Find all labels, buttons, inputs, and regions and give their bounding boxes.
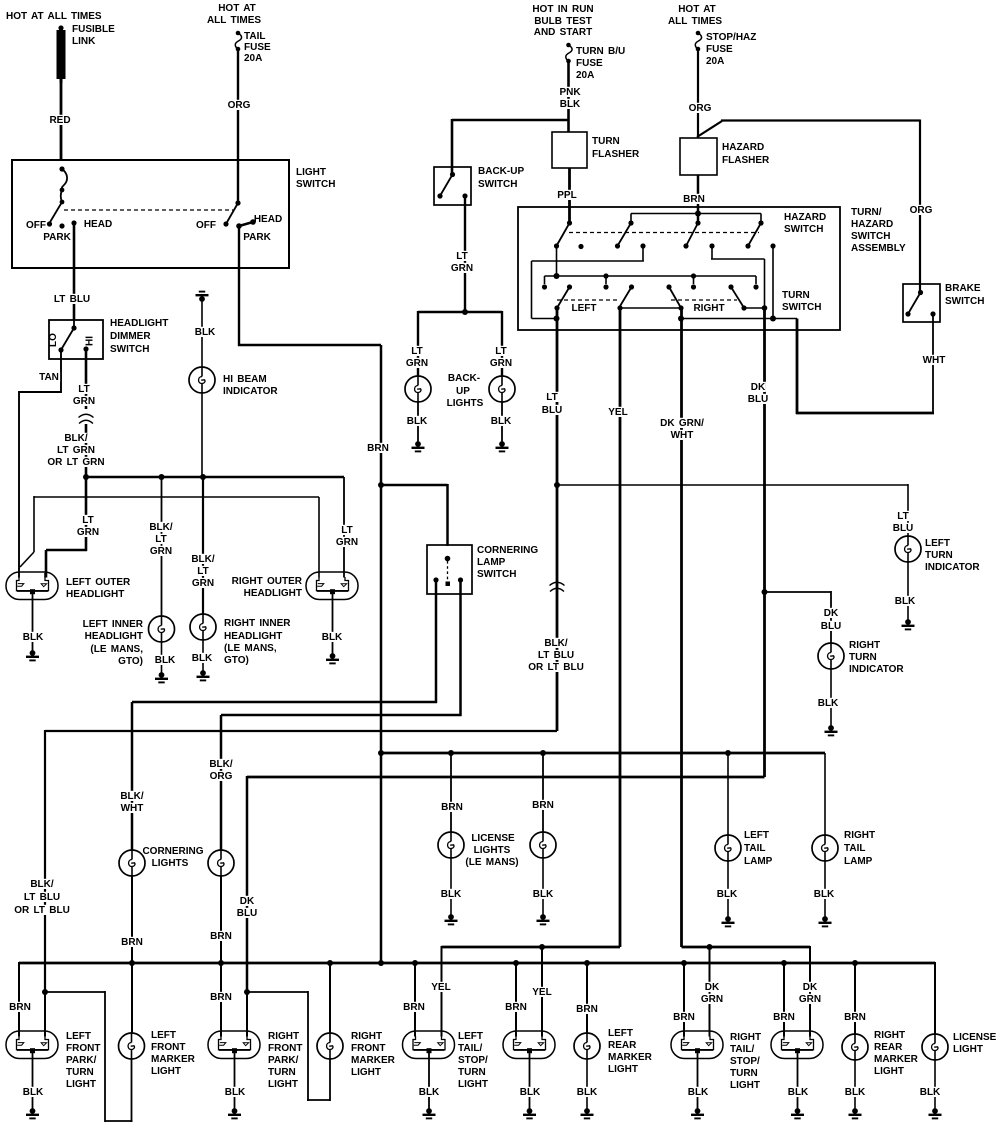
wire BRN to left rear marker [586, 963, 588, 1033]
svg-text:HOT AT: HOT AT [218, 3, 256, 14]
svg-text:BLU: BLU [542, 405, 563, 416]
left tail/stop/turn light connector 1 [403, 1031, 455, 1059]
svg-text:BRN: BRN [844, 1012, 866, 1023]
svg-text:BULB TEST: BULB TEST [534, 16, 592, 27]
svg-text:DIMMER: DIMMER [110, 331, 151, 342]
wire TAN low beam [60, 350, 62, 393]
svg-text:BLK: BLK [533, 889, 554, 900]
svg-text:(LE MANS,: (LE MANS, [90, 644, 143, 655]
wire low beam drop to right outer headlight [318, 497, 320, 578]
svg-text:BLK: BLK [23, 632, 44, 643]
svg-text:PARK: PARK [43, 232, 71, 243]
svg-text:PARK/: PARK/ [66, 1055, 97, 1066]
turn wiper A [567, 284, 572, 289]
svg-text:LT: LT [341, 525, 352, 536]
wire DK BLU front turn feed [247, 776, 765, 779]
svg-text:ORG: ORG [228, 100, 251, 111]
turn contacts [554, 305, 559, 310]
wire BLK + ground right tail connector 1 [697, 1051, 699, 1110]
turn wiper C [666, 284, 671, 289]
svg-text:RIGHT: RIGHT [730, 1032, 761, 1043]
wire TAN into left outer headlight [18, 568, 20, 578]
back-up switch wiper [450, 172, 455, 177]
svg-text:HEAD: HEAD [84, 219, 112, 230]
brake switch wiper [918, 290, 923, 295]
wire LT GRN back-up feed [464, 196, 466, 312]
wire to right tail lamp [824, 753, 826, 835]
svg-text:SWITCH: SWITCH [296, 179, 335, 190]
svg-text:BLK: BLK [520, 1087, 541, 1098]
turn bus terminal 4 [755, 276, 757, 284]
svg-text:BLU: BLU [821, 621, 842, 632]
mechanical link dashed [64, 209, 233, 211]
hazard dashed link [569, 232, 759, 234]
svg-text:LIGHT: LIGHT [66, 1079, 96, 1090]
svg-text:GRN: GRN [799, 994, 821, 1005]
svg-text:BLK: BLK [195, 327, 216, 338]
cornering switch dashed actuator [447, 561, 449, 580]
svg-text:YEL: YEL [532, 987, 551, 998]
wires to back-up lights [418, 311, 465, 313]
wire to left turn indicator [557, 484, 908, 486]
wire BLK + ground left turn indicator [907, 562, 909, 621]
svg-text:20A: 20A [244, 53, 262, 64]
wire BLK/ORG cornering right output [459, 580, 462, 716]
svg-text:MARKER: MARKER [151, 1054, 196, 1065]
svg-text:GRN: GRN [406, 358, 428, 369]
svg-text:LAMP: LAMP [844, 856, 873, 867]
wire DK GRN rear feed [682, 946, 811, 949]
wire BRN drop to right front park light [220, 963, 222, 1037]
svg-text:OR LT BLU: OR LT BLU [528, 662, 584, 673]
wire hi beam indicator to bus [201, 393, 203, 477]
node YEL tap [539, 944, 545, 950]
svg-text:BRN: BRN [576, 1004, 598, 1015]
svg-text:HOT AT ALL TIMES: HOT AT ALL TIMES [6, 11, 102, 22]
svg-text:FUSE: FUSE [706, 44, 733, 55]
turn switch bus wire [545, 275, 757, 277]
svg-text:BLK: BLK [407, 416, 428, 427]
wire LT GRN drop to left outer headlight [85, 477, 88, 551]
svg-text:UP: UP [456, 386, 470, 397]
wire to right front marker light [329, 963, 331, 1033]
svg-text:OR LT GRN: OR LT GRN [47, 457, 104, 468]
svg-text:BLK/: BLK/ [30, 879, 54, 890]
wire YEL rear feed [442, 946, 621, 949]
svg-text:BLK: BLK [491, 416, 512, 427]
svg-text:REAR: REAR [874, 1042, 903, 1053]
svg-text:ORG: ORG [210, 771, 233, 782]
wire BLK/WHT to left cornering light [131, 702, 134, 850]
svg-text:GRN: GRN [490, 358, 512, 369]
svg-text:TAIL/: TAIL/ [730, 1044, 754, 1055]
svg-text:LIGHT: LIGHT [874, 1066, 904, 1077]
svg-text:SWITCH: SWITCH [110, 344, 149, 355]
svg-text:INDICATOR: INDICATOR [223, 386, 278, 397]
wire BRN drop to right tail connector 2 [783, 963, 785, 1037]
hazard wiper 3 (BRN) [695, 220, 700, 225]
svg-text:LIGHTS: LIGHTS [474, 845, 511, 856]
wire to left front marker light [131, 963, 133, 1033]
svg-text:HEADLIGHT: HEADLIGHT [244, 588, 302, 599]
svg-text:GRN: GRN [77, 527, 99, 538]
svg-text:TAN: TAN [39, 372, 59, 383]
svg-text:LEFT: LEFT [925, 538, 950, 549]
wire LT BLU turn output [556, 308, 559, 731]
ground right outer headlight [326, 653, 339, 663]
svg-text:LICENSE: LICENSE [471, 833, 515, 844]
svg-text:LEFT: LEFT [458, 1031, 483, 1042]
wire BLK + ground right tail connector 2 [797, 1051, 799, 1110]
svg-text:LINK: LINK [72, 36, 96, 47]
node bus taps [129, 960, 135, 966]
svg-text:BLK/: BLK/ [209, 759, 233, 770]
svg-text:LEFT OUTER: LEFT OUTER [66, 577, 131, 588]
svg-text:RIGHT: RIGHT [874, 1030, 905, 1041]
node DK GRN tap [707, 944, 713, 950]
lamp cornering light right [208, 850, 234, 876]
back-up switch box [434, 167, 471, 205]
svg-text:TURN: TURN [925, 550, 953, 561]
wire BRN to right rear marker [854, 963, 856, 1034]
svg-text:HEADLIGHT: HEADLIGHT [85, 631, 143, 642]
lamp LEFT TAIL LAMP [715, 835, 741, 861]
node LT BLU indicator tap [554, 482, 560, 488]
svg-text:RIGHT INNER: RIGHT INNER [224, 618, 291, 629]
wire BLK hi beam indicator [201, 299, 203, 367]
svg-text:BLK: BLK [192, 653, 213, 664]
svg-text:SWITCH: SWITCH [945, 296, 984, 307]
svg-text:TURN: TURN [458, 1067, 486, 1078]
wire BRN hazard feed [697, 175, 700, 223]
left outer headlight connector [6, 572, 58, 600]
svg-text:GRN: GRN [192, 578, 214, 589]
svg-text:LIGHT: LIGHT [608, 1064, 638, 1075]
wire BLK + ground license light [934, 1060, 936, 1110]
inline connector [79, 414, 94, 423]
svg-text:BRN: BRN [673, 1012, 695, 1023]
inline connector LT BLU [550, 582, 565, 591]
right tail/stop/turn light connector 2 [771, 1031, 823, 1059]
dimmer wiper [71, 325, 76, 330]
svg-text:GRN: GRN [701, 994, 723, 1005]
node DK BLU junction [244, 989, 250, 995]
turn bus terminal 1 [542, 284, 547, 289]
hazard flasher box [680, 138, 717, 175]
svg-text:WHT: WHT [671, 430, 694, 441]
svg-text:BLU: BLU [237, 908, 258, 919]
svg-text:WHT: WHT [923, 355, 946, 366]
svg-text:STOP/HAZ: STOP/HAZ [706, 32, 756, 43]
fuse TURN B/U FUSE 20A [566, 43, 572, 64]
node license left tap [448, 750, 454, 756]
svg-text:LIGHT: LIGHT [953, 1044, 983, 1055]
wires BLK + grounds back-up lights [417, 402, 419, 443]
svg-text:ASSEMBLY: ASSEMBLY [851, 243, 906, 254]
svg-text:TURN: TURN [782, 290, 810, 301]
wire branch to back-up switch [452, 119, 570, 122]
wire marker return loop right [247, 991, 308, 993]
right outer headlight connector [306, 572, 358, 600]
contact OFF (right) [223, 221, 228, 226]
svg-text:HOT AT: HOT AT [678, 4, 716, 15]
wire BRN below left cornering light [131, 876, 133, 963]
svg-text:BLK: BLK [419, 1087, 440, 1098]
svg-text:(LE MANS,: (LE MANS, [224, 643, 277, 654]
fuse TAIL FUSE 20A [235, 31, 241, 52]
svg-text:ALL TIMES: ALL TIMES [207, 15, 261, 26]
wire BLK + ground right inner [202, 640, 204, 672]
wire BLK/LT GRN left inner headlight [161, 477, 163, 616]
light switch left wiper [59, 166, 64, 171]
lamp LICENSE LIGHTS 1 [438, 832, 464, 858]
contact HEAD (left) [71, 220, 76, 225]
svg-text:LIGHTS: LIGHTS [447, 398, 484, 409]
svg-text:GRN: GRN [336, 537, 358, 548]
left tail/stop/turn light connector 2 [503, 1031, 555, 1059]
svg-text:BLK: BLK [788, 1087, 809, 1098]
svg-text:WHT: WHT [121, 803, 144, 814]
svg-text:BLK: BLK [717, 889, 738, 900]
wire BLK + ground left tail connector 1 [428, 1051, 430, 1110]
svg-text:LT BLU: LT BLU [538, 650, 574, 661]
cornering lamp switch box [427, 545, 472, 594]
svg-text:HAZARD: HAZARD [784, 212, 826, 223]
node on LT BLU drop [554, 316, 560, 322]
wire to cornering lamp switch [381, 484, 448, 487]
svg-text:RIGHT: RIGHT [351, 1031, 382, 1042]
svg-text:BLK: BLK [688, 1087, 709, 1098]
wire BLK + ground right front park [234, 1051, 236, 1110]
turn/hazard switch assembly box [518, 207, 840, 330]
svg-text:HEADLIGHT: HEADLIGHT [110, 318, 168, 329]
svg-text:PNK: PNK [559, 87, 581, 98]
svg-text:DK: DK [705, 982, 720, 993]
svg-text:BLK: BLK [814, 889, 835, 900]
hazard wiper 1 (PPL) [567, 220, 572, 225]
svg-text:TURN/: TURN/ [851, 207, 882, 218]
svg-text:BLU: BLU [748, 394, 769, 405]
svg-text:HOT IN RUN: HOT IN RUN [532, 4, 593, 15]
svg-text:BLK: BLK [560, 99, 581, 110]
svg-text:GTO): GTO) [118, 656, 143, 667]
svg-text:ORG: ORG [689, 103, 712, 114]
svg-text:YEL: YEL [431, 982, 450, 993]
svg-text:GRN: GRN [150, 546, 172, 557]
svg-text:MARKER: MARKER [351, 1055, 396, 1066]
svg-text:TAIL: TAIL [844, 843, 865, 854]
node inner headlight left tap [159, 474, 165, 480]
svg-text:LIGHTS: LIGHTS [152, 858, 189, 869]
wire YEL drop 2 [541, 947, 543, 1037]
svg-text:(LE MANS): (LE MANS) [465, 857, 518, 868]
wire BLK + ground right rear marker [854, 1060, 856, 1110]
wire BLK/ORG to right cornering light [220, 715, 223, 850]
svg-text:TURN: TURN [592, 136, 620, 147]
svg-text:HAZARD: HAZARD [851, 219, 893, 230]
svg-text:FUSE: FUSE [576, 58, 603, 69]
lamp RIGHT TAIL LAMP [812, 835, 838, 861]
svg-text:BRN: BRN [367, 443, 389, 454]
svg-text:LICENSE: LICENSE [953, 1032, 997, 1043]
node BRN bus start [378, 750, 384, 756]
node turn feed junction [554, 273, 560, 279]
hazard contacts row [554, 243, 559, 248]
lamp back-up light right [489, 376, 515, 402]
svg-text:RIGHT: RIGHT [693, 303, 724, 314]
wire BRN drop to left tail connector [414, 963, 416, 1037]
svg-text:LIGHT: LIGHT [351, 1067, 381, 1078]
wire DK GRN drop 2 [809, 946, 811, 1037]
wire BRN to license light 1 [450, 753, 452, 832]
svg-text:FLASHER: FLASHER [722, 155, 770, 166]
svg-text:HAZARD: HAZARD [722, 142, 764, 153]
svg-text:LEFT: LEFT [66, 1031, 91, 1042]
wire BLK + ground left tail lamp [727, 861, 729, 918]
wire contact B-C link [620, 307, 681, 309]
svg-text:STOP/: STOP/ [458, 1055, 488, 1066]
svg-text:TURN B/U: TURN B/U [576, 46, 625, 57]
svg-text:20A: 20A [576, 70, 594, 81]
wire hazard contact 4 drop [772, 246, 774, 319]
wire BLK/LT GRN right inner headlight [202, 477, 204, 614]
node BRN junction on hazard bus [695, 211, 701, 217]
wire BLK + ground left rear marker [586, 1059, 588, 1110]
wire BRN below right cornering light [220, 876, 222, 963]
wire BLK + ground right tail lamp [824, 861, 826, 918]
lamp right inner headlight [190, 614, 216, 640]
light switch box [12, 160, 289, 268]
node inner headlight right tap [200, 474, 206, 480]
svg-text:LT: LT [546, 392, 557, 403]
svg-text:BLK: BLK [845, 1087, 866, 1098]
svg-text:SWITCH: SWITCH [782, 302, 821, 313]
svg-text:FRONT: FRONT [66, 1043, 100, 1054]
svg-text:LAMP: LAMP [477, 557, 506, 568]
svg-text:TURN: TURN [268, 1067, 296, 1078]
wire BRN to license light 2 [542, 753, 544, 832]
node license right tap [540, 750, 546, 756]
svg-text:HEAD: HEAD [254, 214, 282, 225]
lamp LEFT FRONT MARKER LIGHT [119, 1033, 145, 1059]
wire to left tail lamp [727, 753, 729, 835]
svg-text:LT: LT [197, 566, 208, 577]
wire ORG from tail fuse to light switch [237, 49, 239, 203]
wire YEL drop 1 [441, 946, 443, 1037]
svg-text:ORG: ORG [910, 205, 933, 216]
svg-text:BLK/: BLK/ [120, 791, 144, 802]
wire WHT brake output [932, 314, 934, 414]
svg-text:BRN: BRN [9, 1002, 31, 1013]
cornering switch contacts [433, 577, 438, 582]
wire BLK + ground left front park [32, 1051, 34, 1110]
svg-text:FUSE: FUSE [244, 42, 271, 53]
svg-text:DK: DK [240, 896, 255, 907]
svg-text:DK GRN/: DK GRN/ [660, 418, 704, 429]
svg-text:LT: LT [897, 511, 908, 522]
svg-text:LIGHT: LIGHT [268, 1079, 298, 1090]
back-up switch contacts [437, 193, 442, 198]
svg-text:RED: RED [49, 115, 70, 126]
tail light BRN bus [381, 752, 825, 755]
svg-text:HI BEAM: HI BEAM [223, 374, 267, 385]
turn dashed right RIGHT [671, 299, 737, 301]
svg-text:OR LT BLU: OR LT BLU [14, 905, 70, 916]
svg-text:LAMP: LAMP [744, 856, 773, 867]
svg-text:RIGHT OUTER: RIGHT OUTER [232, 576, 303, 587]
ground left outer headlight [26, 650, 39, 660]
wire DK BLU into connector [246, 992, 248, 1037]
svg-text:LT BLU: LT BLU [24, 892, 60, 903]
wire brake feed to turn switch [796, 319, 799, 415]
wire LT GRN high beam from dimmer [85, 349, 88, 409]
wire BRN drop to right tail connector 1 [683, 963, 685, 1037]
svg-text:DK: DK [751, 382, 766, 393]
headlight dimmer switch box [49, 320, 103, 359]
lamp LICENSE LIGHT [922, 1034, 948, 1060]
svg-text:LT: LT [82, 515, 93, 526]
wire BLK/WHT cornering left output [435, 580, 438, 703]
svg-text:BLK: BLK [818, 698, 839, 709]
lamp back-up light left [405, 376, 431, 402]
svg-text:LT BLU: LT BLU [54, 294, 90, 305]
svg-text:LT: LT [411, 346, 422, 357]
node DK BLU indicator tap [762, 589, 768, 595]
wire light switch PARK output to BRN riser [238, 226, 240, 346]
svg-text:BACK-UP: BACK-UP [478, 166, 524, 177]
left front park/turn light connector [6, 1031, 58, 1059]
wire DK GRN/WHT turn output [680, 308, 683, 947]
svg-text:OFF: OFF [26, 220, 46, 231]
svg-text:HEADLIGHT: HEADLIGHT [224, 631, 282, 642]
node left tail lamp tap [725, 750, 731, 756]
wire PNK BLK [567, 61, 570, 132]
svg-text:INDICATOR: INDICATOR [925, 562, 980, 573]
wire BLK + ground left inner [161, 642, 163, 674]
svg-text:SWITCH: SWITCH [477, 569, 516, 580]
contact OFF (left) [47, 221, 52, 226]
svg-text:BLK: BLK [23, 1087, 44, 1098]
wire marker return loop left [131, 1059, 133, 1122]
svg-text:TURN: TURN [66, 1067, 94, 1078]
contact PARK (left) [59, 223, 64, 228]
wire BLK right outer ground [332, 591, 334, 655]
fuse STOP/HAZ FUSE 20A [695, 31, 701, 52]
svg-text:GRN: GRN [451, 263, 473, 274]
wire LT GRN drop to right outer headlight [343, 477, 345, 578]
brake switch contacts [905, 311, 910, 316]
wire RED feed [60, 82, 63, 161]
svg-text:HEADLIGHT: HEADLIGHT [66, 589, 124, 600]
high beam bus wire [86, 476, 344, 479]
svg-text:BLU: BLU [893, 523, 914, 534]
node contact D junction [762, 305, 768, 311]
hazard switch bus wire [631, 213, 761, 215]
svg-text:TAIL: TAIL [744, 843, 765, 854]
right front park/turn light connector [208, 1031, 260, 1059]
svg-text:LT GRN: LT GRN [57, 445, 95, 456]
wire BRN park feed [380, 345, 383, 963]
svg-text:LIGHT: LIGHT [151, 1066, 181, 1077]
contact LO [58, 347, 63, 352]
svg-text:FUSIBLE: FUSIBLE [72, 24, 115, 35]
wire hazard-to-turn feed [556, 246, 558, 276]
svg-text:BLK: BLK [577, 1087, 598, 1098]
node BRN cornering tap [378, 482, 384, 488]
svg-text:BLK/: BLK/ [149, 522, 173, 533]
wire contact D to DK BLU [744, 307, 765, 309]
svg-text:PARK/: PARK/ [268, 1055, 299, 1066]
